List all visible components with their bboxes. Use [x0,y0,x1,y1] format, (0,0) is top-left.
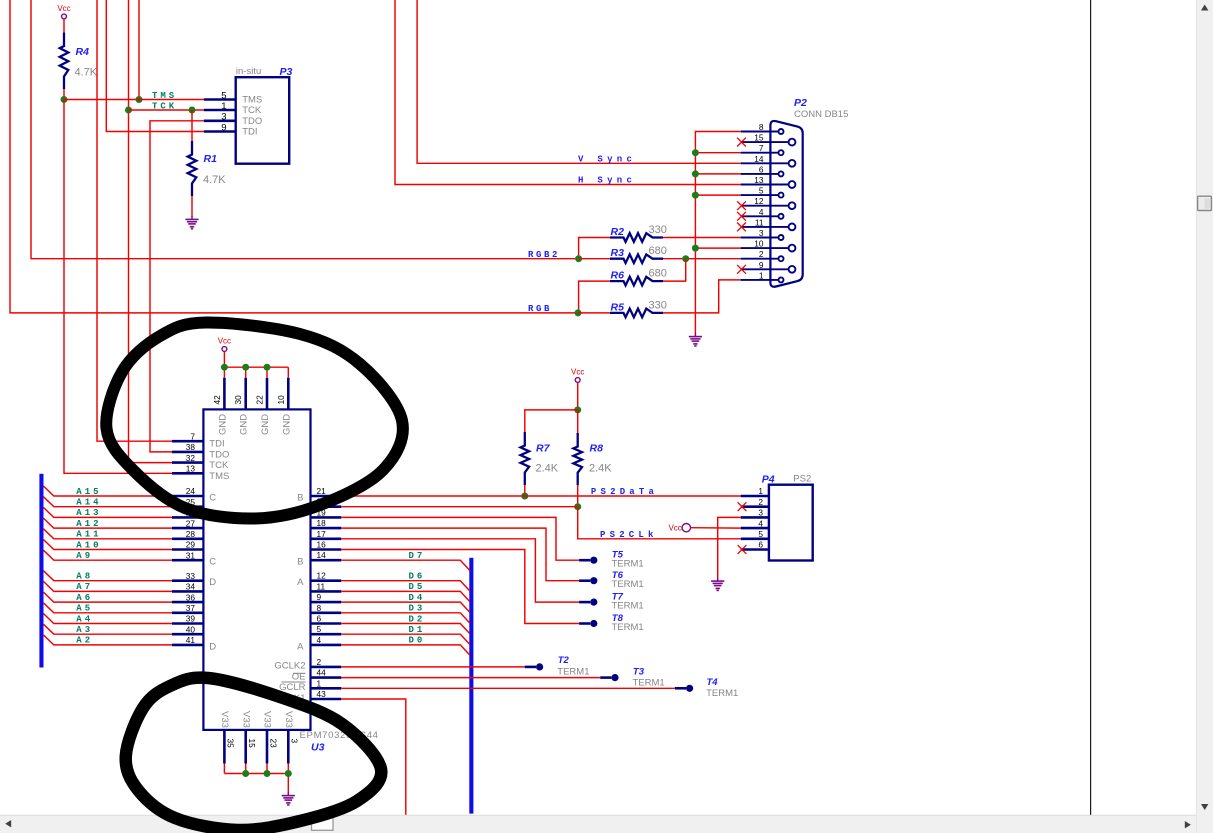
svg-text:23: 23 [268,739,278,749]
svg-text:43: 43 [317,689,327,699]
svg-text:2.4K: 2.4K [536,463,559,475]
svg-text:A3: A3 [76,625,93,635]
svg-text:V33: V33 [240,711,251,728]
svg-text:GCLK2: GCLK2 [274,661,305,672]
svg-text:TERM1: TERM1 [612,559,644,570]
svg-text:A13: A13 [76,508,101,518]
wire R3 to P2 pin 2 [663,258,741,260]
svg-text:R2: R2 [611,226,625,238]
svg-text:9: 9 [221,122,226,133]
svg-text:16: 16 [317,540,327,550]
connector P4 PS2 [741,474,813,561]
wire ground rail to P2 pin 5 [695,194,740,196]
svg-text:TERM1: TERM1 [633,677,665,688]
svg-text:39: 39 [186,614,196,624]
resistor R1 [188,141,227,196]
svg-text:13: 13 [186,464,196,474]
wire D4 to data bus [341,602,470,612]
svg-text:TERM1: TERM1 [706,688,738,699]
connector P3 (in-situ JTAG header) [204,66,293,164]
junction P2 pin 6 [692,170,699,177]
junction at R4 bottom / TMS [61,96,68,103]
wire R7 to PS2DaTa [524,485,526,496]
svg-text:T4: T4 [707,677,719,688]
svg-text:2: 2 [758,497,763,507]
svg-text:38: 38 [186,442,196,452]
svg-text:D5: D5 [409,582,426,592]
svg-text:D: D [209,577,216,588]
svg-text:R1: R1 [204,153,218,165]
svg-text:15: 15 [247,739,257,749]
junction TMS vertical [136,96,143,103]
U3 bottom pins 35/15/23/3 (V33) [219,711,300,764]
resistor R2 [610,224,667,242]
wire U3 to T6 [341,528,579,581]
wire TDO from P3 pin 3 down to U3 pin 38 [150,121,204,452]
terminal T7 TERM1 [579,592,644,612]
wire GCLR to T4 [341,687,675,689]
svg-text:RGB2: RGB2 [528,250,560,260]
junction P2 pin 7 [692,149,699,156]
svg-text:5: 5 [221,90,226,101]
svg-text:37: 37 [186,603,196,613]
wire TCK horizontal to P3 pin 1 [129,109,204,111]
svg-text:D1: D1 [409,625,426,635]
wire TMS down to U3 pin 13 [64,100,172,474]
wire GCLK1 down to bottom [341,699,406,815]
wire TCK node to R1 [191,110,193,141]
wire V Sync net [417,0,741,163]
bus entry + wire A11 [43,529,172,539]
power symbol Vcc (U3 GND rail) [218,337,231,352]
resistor R7 [521,432,559,485]
svg-text:A6: A6 [76,593,93,603]
svg-text:Vcc: Vcc [668,524,681,533]
svg-text:TDO: TDO [242,116,262,127]
svg-text:21: 21 [317,486,327,496]
svg-text:7: 7 [190,431,195,441]
junction R6 to pin2 wire [682,255,689,262]
wire TDI from P3 pin 9 to top edge [106,0,204,132]
IC U3 body [203,409,310,730]
bus entry + wire A10 [43,540,172,550]
bus entry + wire A9 [43,550,172,560]
svg-text:C: C [209,557,216,568]
svg-text:P3: P3 [280,66,293,78]
no-connect X on P2 pin 15 [737,138,746,147]
svg-text:TERM1: TERM1 [612,622,644,633]
svg-text:12: 12 [317,571,327,581]
svg-text:A11: A11 [76,530,101,540]
wire ground rail to P2 pin 7 [695,152,740,154]
wire R5 to P2 pin 1 [663,280,741,313]
power symbol Vcc (R4 pull-up) [57,4,70,19]
svg-text:TDI: TDI [242,127,257,138]
svg-text:TCK: TCK [152,102,177,112]
wire R5 left lead [578,312,610,314]
junction R7 on PS2DaTa [521,493,528,500]
svg-text:TDI: TDI [209,439,224,450]
svg-text:34: 34 [186,582,196,592]
svg-text:14: 14 [317,550,327,560]
wire RGB net [10,0,578,313]
svg-text:29: 29 [186,540,196,550]
terminal T3 TERM1 [600,666,664,688]
power symbol Vcc (P4 pin 4) [668,524,690,533]
svg-text:A14: A14 [76,498,101,508]
wire R2 left lead to RGB2 [579,238,610,259]
svg-text:GND: GND [217,414,228,435]
svg-text:TERM1: TERM1 [612,600,644,611]
wire ground rail to P2 pin 6 [695,173,740,175]
ground (P4 pin 3) [711,578,724,591]
annotation ellipse (top, hand-drawn) [106,322,403,518]
svg-text:10: 10 [276,395,286,405]
svg-text:10: 10 [754,239,764,249]
svg-text:3: 3 [758,508,763,518]
junction V33 rail 23 [264,770,271,777]
svg-text:Vcc: Vcc [57,4,70,13]
wire P4 pin 3 to ground [718,517,741,577]
svg-text:A5: A5 [76,604,93,614]
wire Vcc to R4 [63,19,65,33]
svg-text:T3: T3 [633,666,645,677]
junction V33 rail 15 [242,770,249,777]
svg-text:11: 11 [755,217,764,227]
wire GCLK2 to T2 [341,666,524,668]
wire U3 top GND rail [224,352,288,378]
svg-text:4.7K: 4.7K [75,67,98,79]
svg-text:28: 28 [186,529,196,539]
U3 pins 2/44/1/43 (GCLK2 OE GCLR GCLK1) [274,657,341,704]
terminal T5 TERM1 [579,550,644,570]
bus entry + wire A7 [43,581,172,591]
svg-text:12: 12 [754,196,764,206]
wire D0 to data bus [341,645,470,655]
svg-text:6: 6 [758,540,763,550]
bus entry + wire A8 [43,571,172,581]
svg-text:U3: U3 [311,742,325,754]
svg-text:D2: D2 [409,614,426,624]
wire R6 right lead up [663,259,686,281]
bus entry + wire A14 [43,497,172,507]
svg-text:31: 31 [186,550,196,560]
svg-text:B: B [297,557,303,568]
bus entry + wire A12 [43,518,172,528]
resistor R8 [573,433,612,485]
svg-text:TCK: TCK [242,105,262,116]
svg-text:A: A [297,577,304,588]
junction TCK vertical [125,107,132,114]
bus entry + wire A2 [43,635,172,645]
svg-text:A4: A4 [76,614,93,624]
svg-text:H Sync: H Sync [578,176,636,186]
wire U3 to T5 [341,517,579,560]
svg-text:1: 1 [221,101,226,112]
bus entry + wire A15 [43,486,172,496]
schematic sheet border [1090,0,1092,815]
svg-text:2: 2 [759,249,764,259]
wire U3 bottom V33 rail [224,764,288,793]
wire PS2DaTa (U3 pin 21 to P4 pin 1) [341,495,740,497]
U3 left pins 33-41 (port D) [172,571,216,653]
no-connect X on P2 pin 12 [737,201,746,210]
wire PS2CLk to P4 pin 5 [578,507,741,539]
svg-text:PS2DaTa: PS2DaTa [591,487,658,497]
wire D2 to data bus [341,624,470,634]
svg-text:D6: D6 [409,572,426,582]
svg-text:GND: GND [281,414,292,435]
svg-text:8: 8 [759,122,764,132]
wire U3 to T8 [341,550,579,624]
wire RGB2 net [31,0,579,259]
wire to R7 top [525,410,578,432]
svg-text:42: 42 [212,395,222,405]
svg-text:17: 17 [317,529,327,539]
U3 right pins 21-14 (port B) [297,486,341,568]
wire TDI from top edge to U3 pin 7 [97,0,172,441]
svg-text:2: 2 [317,657,322,667]
resistor R4 [60,33,98,90]
svg-text:5: 5 [317,624,322,634]
svg-text:11: 11 [317,581,326,591]
svg-text:Vcc: Vcc [571,368,584,377]
svg-text:7: 7 [759,143,764,153]
terminal T8 TERM1 [579,613,644,633]
U3 right pins 12-4 (port A) [297,571,341,653]
resistor R6 [610,268,667,286]
bus entry + wire A4 [43,614,172,624]
junction P2 pin 5 [692,192,699,199]
svg-text:D4: D4 [409,593,426,603]
svg-text:A7: A7 [76,582,93,592]
svg-text:R4: R4 [76,46,90,58]
svg-text:680: 680 [649,245,667,257]
wire TMS net from top edge [138,0,140,100]
wire D3 to data bus [341,613,470,623]
U3 top pins 42/30/22/10 (GND) [212,378,292,435]
wire TCK net from top edge down to U3 pin 32 [129,0,173,463]
svg-text:1: 1 [758,486,763,496]
svg-text:A: A [297,641,304,652]
wire D5 to data bus [341,591,470,601]
svg-text:TCK: TCK [209,460,229,471]
wire ground rail to P2 pin 10 [695,247,740,249]
bus entry + wire A6 [43,592,172,602]
wire R1 to ground [191,196,193,216]
wire U3 pin 20 to R8 [341,506,577,508]
wire R6 left lead to RGB [579,281,610,313]
wire R8 to PS2CLK node [577,485,579,507]
svg-text:D7: D7 [409,551,426,561]
svg-text:27: 27 [186,518,196,528]
svg-text:13: 13 [754,175,764,185]
svg-text:V Sync: V Sync [578,155,636,165]
svg-text:1: 1 [759,270,764,280]
ground (P2 shield pins) [689,333,702,346]
svg-text:14: 14 [754,154,764,164]
address bus (A2-A15) [39,474,43,668]
wire D7 to data bus [341,560,470,570]
wire OE to T3 [341,677,600,679]
svg-text:5: 5 [759,186,764,196]
junction R8 on PS2CLK [574,503,581,510]
junction GND rail 42 [221,364,228,371]
ground (R1) [185,216,198,229]
svg-text:P4: P4 [762,474,775,486]
svg-text:4.7K: 4.7K [203,174,226,186]
terminal T4 TERM1 [675,677,738,699]
wire Vcc to P4 pin 4 [691,527,741,529]
svg-text:30: 30 [233,395,243,405]
wire U3 to T7 [341,539,579,602]
no-connect X on P4 pin 2 [738,502,747,511]
svg-text:T2: T2 [558,655,570,666]
svg-text:CONN DB15: CONN DB15 [794,109,848,120]
svg-text:680: 680 [649,268,667,280]
svg-text:36: 36 [186,592,196,602]
svg-text:R3: R3 [611,247,625,259]
wire R3 left lead [579,258,610,260]
svg-text:330: 330 [649,299,667,311]
svg-text:TERM1: TERM1 [557,666,589,677]
junction V33 rail 3 [285,770,292,777]
svg-text:A10: A10 [76,540,101,550]
svg-text:A12: A12 [76,519,101,529]
svg-text:Vcc: Vcc [218,337,231,346]
svg-text:18: 18 [317,518,327,528]
ground (U3 V33 rail) [282,792,295,805]
wire ground rail to P2 pin 8 [695,132,740,334]
bus entry + wire A5 [43,603,172,613]
junction RGB node [575,309,582,316]
bus entry + wire A3 [43,624,172,634]
junction RGB2 node [575,255,582,262]
junction P2 pin 10 [692,245,699,252]
svg-text:A9: A9 [76,551,93,561]
no-connect X on P2 pin 4 [737,212,746,221]
junction GND rail 22 [264,364,271,371]
junction GND rail 30 [242,364,249,371]
svg-text:35: 35 [226,739,236,749]
svg-text:PS2: PS2 [793,474,811,485]
svg-text:3: 3 [221,112,226,123]
svg-text:C: C [209,493,216,504]
svg-text:4: 4 [759,207,764,217]
svg-text:15: 15 [754,133,764,143]
junction TCK at R1 [189,107,196,114]
svg-text:TDO: TDO [209,449,229,460]
svg-text:24: 24 [186,486,196,496]
svg-text:9: 9 [317,592,322,602]
svg-text:3: 3 [759,228,764,238]
svg-text:R8: R8 [590,443,604,455]
wire TMS horizontal to P3 pin 5 [64,99,204,101]
svg-text:4: 4 [758,518,763,528]
svg-text:33: 33 [186,571,196,581]
bus entry + wire A13 [43,507,172,517]
wire Vcc to R7/R8 node [577,383,579,410]
svg-text:2.4K: 2.4K [589,463,612,475]
svg-text:4: 4 [317,635,322,645]
svg-text:A2: A2 [76,636,93,646]
svg-text:6: 6 [759,164,764,174]
U3 JTAG pins 7/38/32/13 (TDI TDO TCK TMS) [172,431,229,481]
resistor R3 [610,245,667,263]
svg-text:A15: A15 [76,487,101,497]
svg-text:PS2CLk: PS2CLk [600,530,658,540]
svg-text:TERM1: TERM1 [612,579,644,590]
svg-text:44: 44 [317,668,327,678]
svg-text:B: B [297,493,303,504]
no-connect X on P2 pin 11 [737,223,746,232]
junction Vcc node [574,406,581,413]
no-connect X on P4 pin 6 [738,545,747,554]
wire H Sync net [395,0,741,185]
terminal T2 TERM1 [525,655,590,677]
svg-text:8: 8 [317,603,322,613]
annotation ellipse (bottom, hand-drawn) [126,678,382,830]
svg-text:5: 5 [758,529,763,539]
svg-text:R5: R5 [611,301,625,313]
svg-text:D0: D0 [409,636,426,646]
svg-text:GND: GND [260,414,271,435]
svg-text:in-situ: in-situ [236,66,261,77]
svg-text:D3: D3 [409,604,426,614]
connector P2 CONN DB15 [741,97,849,287]
svg-text:40: 40 [186,624,196,634]
svg-text:1: 1 [317,678,322,688]
wire D6 to data bus [341,581,470,591]
svg-text:V33: V33 [283,711,294,728]
data bus (D0-D7) [469,558,473,814]
power symbol Vcc (R7/R8) [571,368,584,383]
svg-text:22: 22 [255,395,265,405]
svg-text:RGB: RGB [528,304,552,314]
wire R2 to P2 pin 3 [663,237,741,239]
svg-text:32: 32 [186,453,196,463]
svg-text:GND: GND [239,414,250,435]
svg-text:6: 6 [317,614,322,624]
svg-text:V33: V33 [262,711,273,728]
svg-text:D: D [209,641,216,652]
svg-text:330: 330 [649,224,667,236]
svg-text:TMS: TMS [209,471,229,482]
svg-text:9: 9 [759,260,764,270]
wire R4 to TMS node [63,89,65,100]
svg-text:R7: R7 [536,443,551,455]
U3 left pins 24-31 (port C) [172,486,216,568]
svg-text:3: 3 [290,739,300,744]
svg-text:TMS: TMS [242,95,262,106]
svg-text:TMS: TMS [152,91,177,101]
wire R8 top [577,410,579,433]
no-connect X on P2 pin 9 [737,265,746,274]
terminal T6 TERM1 [579,570,644,590]
resistor R5 [610,299,667,317]
svg-text:A8: A8 [76,572,93,582]
wire D1 to data bus [341,634,470,644]
svg-text:P2: P2 [794,97,807,109]
svg-text:41: 41 [186,635,196,645]
svg-text:V33: V33 [219,711,230,728]
svg-text:R6: R6 [611,270,625,282]
